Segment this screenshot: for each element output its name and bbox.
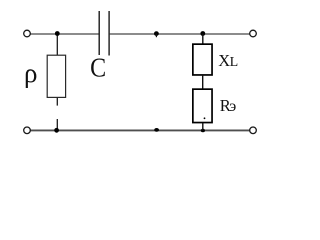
wire top rail left segment <box>30 33 98 35</box>
wire between XL and R boxes <box>202 75 204 89</box>
node junction dot top middle <box>154 31 159 36</box>
svg-text:X: X <box>218 51 230 70</box>
capacitor C right plate <box>108 11 110 56</box>
wire top rail right segment <box>110 33 250 35</box>
resistor rho (box) <box>47 55 65 97</box>
terminal top-right <box>250 30 257 37</box>
svg-text:ρ: ρ <box>24 58 37 88</box>
node junction dot top at rho branch <box>55 31 60 36</box>
inductor XL (box) <box>193 44 212 75</box>
wire stub above bottom-left junction <box>56 119 58 130</box>
node junction dot bottom at R branch <box>201 129 205 133</box>
node junction dot top at XL branch <box>200 31 205 36</box>
terminal bottom-right <box>250 127 257 134</box>
wire stub below top-middle dot <box>155 34 157 38</box>
terminal top-left <box>24 30 31 37</box>
wire R branch bottom <box>202 123 204 130</box>
wire bottom rail <box>30 129 249 131</box>
svg-text:L: L <box>230 55 239 70</box>
node junction dot bottom at rho branch <box>54 128 59 133</box>
wire stub below rho box <box>56 98 58 106</box>
wire rho branch vertical <box>56 34 58 56</box>
terminal bottom-left <box>24 127 31 134</box>
resistor Re (box) <box>193 89 212 122</box>
svg-text:C: C <box>90 52 106 82</box>
svg-text:э: э <box>229 98 236 115</box>
speck inside Re box <box>204 117 206 119</box>
wire XL branch top <box>202 34 204 44</box>
node junction dot bottom middle <box>154 128 159 132</box>
capacitor C left plate <box>98 11 100 55</box>
